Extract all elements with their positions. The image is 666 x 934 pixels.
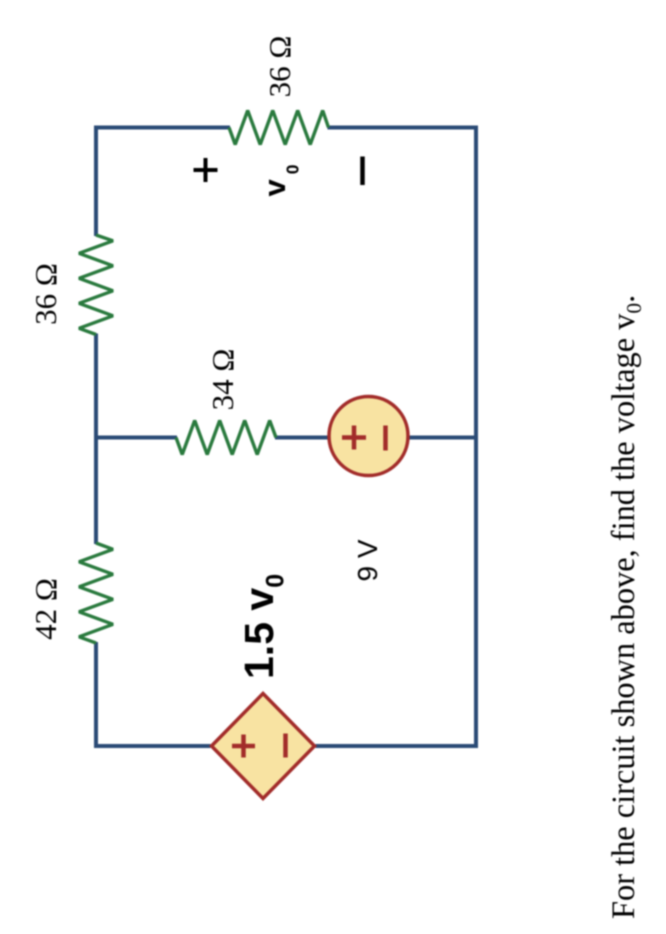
plus in circle: [352, 426, 357, 450]
wire middle upper: [94, 436, 177, 440]
wire bottom: [474, 126, 478, 749]
dependent source diamond 1.5v0: [212, 694, 315, 799]
resistor R 42ohm (top wire, left): [79, 543, 113, 643]
svg-text:v0: v0: [257, 164, 302, 196]
resistor R 36ohm (top wire, right): [79, 235, 113, 335]
wire middle lower: [408, 436, 478, 440]
wire right lower: [328, 126, 479, 130]
wire left lower: [316, 744, 479, 748]
wire right upper: [94, 126, 230, 130]
plus mark v0: [204, 158, 208, 182]
wire left upper: [94, 744, 211, 748]
svg-text:36 Ω: 36 Ω: [28, 263, 63, 325]
wire top-right segment: [94, 126, 98, 237]
voltage source circle 9V: [329, 397, 408, 476]
minus mark v0: [360, 157, 365, 186]
wire middle between R and source: [275, 436, 329, 440]
resistor R 34ohm (middle branch): [176, 421, 276, 455]
svg-text:36 Ω: 36 Ω: [262, 36, 297, 98]
svg-text:For the circuit shown above, f: For the circuit shown above, find the vo…: [606, 295, 646, 919]
svg-text:1.5 v0: 1.5 v0: [236, 574, 290, 679]
resistor R 36ohm (right branch): [229, 111, 329, 145]
svg-text:34 Ω: 34 Ω: [205, 349, 240, 411]
plus in diamond: [241, 735, 246, 758]
minus in diamond: [283, 734, 288, 758]
svg-text:9 V: 9 V: [352, 539, 383, 581]
minus in circle: [383, 426, 388, 451]
wire top-left segment: [94, 642, 98, 748]
svg-text:42 Ω: 42 Ω: [28, 578, 63, 640]
wire top-middle segment: [94, 334, 98, 545]
